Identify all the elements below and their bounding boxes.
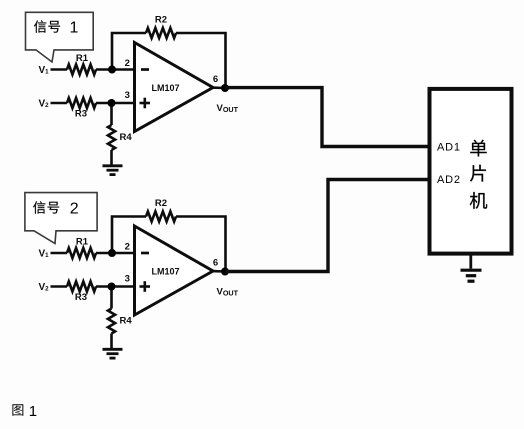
svg-text:2: 2 — [70, 201, 79, 218]
svg-text:R2: R2 — [155, 14, 167, 25]
svg-text:3: 3 — [125, 274, 130, 285]
svg-text:R4: R4 — [120, 315, 133, 326]
svg-text:3: 3 — [125, 90, 130, 101]
svg-text:R2: R2 — [155, 198, 167, 209]
svg-text:R4: R4 — [120, 132, 133, 143]
svg-text:VOUT: VOUT — [217, 287, 239, 298]
svg-text:AD1: AD1 — [437, 142, 461, 154]
svg-text:R1: R1 — [76, 237, 89, 248]
svg-text:6: 6 — [213, 257, 218, 268]
svg-text:VOUT: VOUT — [217, 103, 239, 114]
svg-text:1: 1 — [70, 20, 79, 37]
svg-text:R3: R3 — [75, 292, 87, 303]
svg-text:1: 1 — [29, 403, 37, 420]
svg-text:2: 2 — [125, 58, 130, 69]
svg-text:AD2: AD2 — [437, 174, 461, 186]
svg-text:6: 6 — [213, 74, 218, 85]
svg-text:2: 2 — [125, 242, 130, 253]
svg-text:R3: R3 — [75, 108, 87, 119]
svg-text:LM107: LM107 — [151, 266, 179, 276]
svg-text:R1: R1 — [76, 53, 89, 64]
svg-text:LM107: LM107 — [151, 83, 179, 93]
